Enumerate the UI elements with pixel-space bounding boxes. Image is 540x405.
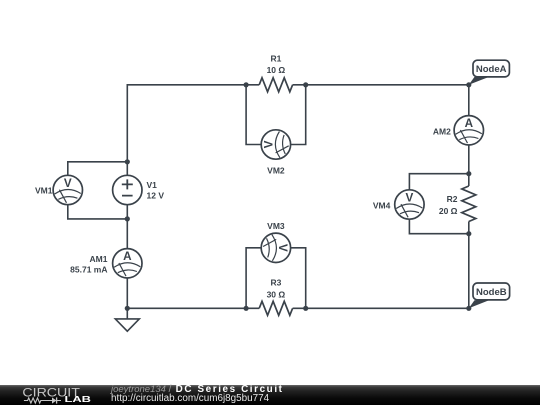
- resistor R2 body: [462, 186, 476, 222]
- voltage source V1: [113, 175, 142, 204]
- wire right column NodeA to R2 top: [468, 85, 470, 186]
- node junction ground: [125, 306, 130, 311]
- ammeter AM2: [454, 116, 483, 145]
- ammeter AM1: [113, 249, 142, 278]
- svg-text:V: V: [64, 177, 72, 190]
- svg-text:R3: R3: [270, 277, 281, 287]
- node flag NodeA: [469, 60, 510, 85]
- resistor R1 body: [259, 78, 292, 92]
- svg-text:NodeB: NodeB: [476, 287, 507, 298]
- svg-text:R2: R2: [447, 194, 458, 204]
- svg-text:V: V: [276, 244, 289, 252]
- wire V1 vertical through source: [126, 162, 128, 219]
- node junction R1 right: [303, 82, 308, 87]
- ground: [115, 308, 139, 331]
- svg-text:A: A: [465, 117, 474, 130]
- svg-text:V: V: [406, 191, 414, 204]
- wire VM1 top branch: [68, 162, 128, 190]
- svg-text:VM4: VM4: [373, 201, 391, 211]
- node junction V1/VM1 top: [125, 159, 130, 164]
- CircuitLab logo: [20, 385, 100, 405]
- svg-text:LAB: LAB: [65, 394, 92, 404]
- svg-text:20 Ω: 20 Ω: [439, 206, 458, 216]
- wire AM1 vertical left column: [126, 219, 128, 308]
- node junction R3 right: [303, 306, 308, 311]
- wire R2 bottom to NodeB: [468, 222, 470, 309]
- wire top-left riser and top rail to NodeA: [127, 85, 469, 162]
- svg-text:VM2: VM2: [267, 165, 285, 175]
- node junction R3 left: [244, 306, 249, 311]
- svg-text:AM2: AM2: [433, 126, 451, 136]
- svg-text:R1: R1: [270, 54, 281, 64]
- svg-text:A: A: [123, 250, 132, 263]
- node junction R2 bottom: [466, 231, 471, 236]
- wire VM3 parallel branch around R3: [246, 248, 306, 308]
- wire VM1 bottom branch: [68, 190, 128, 219]
- svg-text:VM1: VM1: [35, 186, 53, 196]
- wire bottom rail NodeB to ground: [127, 307, 469, 309]
- voltmeter VM4: [395, 190, 424, 219]
- node junction NodeB: [466, 306, 471, 311]
- resistor R3 body: [259, 301, 292, 315]
- logo resistor-diode glyph: [24, 397, 61, 402]
- wire VM2 parallel branch around R1: [246, 85, 306, 145]
- node junction R1 left: [244, 82, 249, 87]
- svg-text:12 V: 12 V: [147, 190, 165, 200]
- voltmeter VM1: [53, 175, 82, 204]
- svg-text:V1: V1: [147, 180, 158, 190]
- svg-text:AM1: AM1: [90, 254, 108, 264]
- node junction NodeA: [466, 82, 471, 87]
- svg-text:NodeA: NodeA: [476, 64, 507, 75]
- svg-text:85.71 mA: 85.71 mA: [70, 265, 107, 275]
- node junction V1/VM1 bottom: [125, 216, 130, 221]
- wire VM4 parallel branch around R2: [409, 174, 468, 234]
- svg-text:10 Ω: 10 Ω: [267, 65, 286, 75]
- voltmeter VM3 (rotated 90 CW): [261, 233, 290, 262]
- voltmeter VM2 (rotated 90 CCW): [261, 130, 290, 159]
- node junction R2 top: [466, 171, 471, 176]
- svg-text:VM3: VM3: [267, 221, 285, 231]
- svg-text:30 Ω: 30 Ω: [267, 289, 286, 299]
- svg-text:V: V: [263, 140, 276, 148]
- footer bar: [0, 385, 540, 405]
- footer text: [111, 385, 284, 404]
- node flag NodeB: [469, 283, 510, 308]
